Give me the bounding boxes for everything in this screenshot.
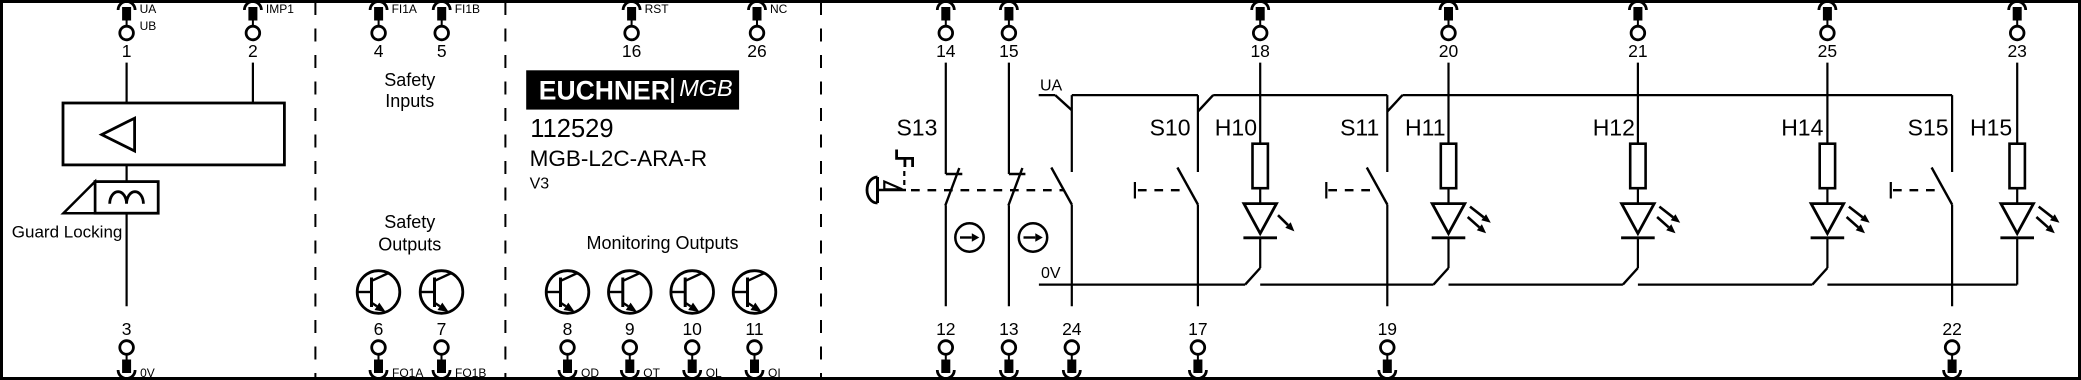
wire resistor to LED H12 xyxy=(1637,188,1639,204)
0V bus segment 2 xyxy=(1260,284,1433,286)
wire H15 to 0V bus end corner xyxy=(2016,238,2018,285)
H12 series resistor xyxy=(1630,144,1645,189)
svg-text:17: 17 xyxy=(1188,319,1207,339)
svg-text:7: 7 xyxy=(437,319,447,339)
svg-text:Outputs: Outputs xyxy=(378,235,441,255)
wire S15 to terminal 22 xyxy=(1951,205,1953,307)
UA bus branch diagonal S11 xyxy=(1387,95,1402,111)
svg-text:FI1B: FI1B xyxy=(455,2,480,16)
transistor output 9 xyxy=(609,271,652,314)
svg-text:IMP1: IMP1 xyxy=(266,2,294,16)
UA bus segment 3 xyxy=(1403,94,1953,96)
wire H10 to 0V bus with diagonal xyxy=(1259,238,1261,268)
LED H11 xyxy=(1432,204,1465,234)
svg-text:UA: UA xyxy=(140,2,157,16)
LED H14 xyxy=(1811,204,1844,234)
svg-text:S15: S15 xyxy=(1908,115,1949,141)
svg-text:23: 23 xyxy=(2007,41,2026,61)
wire guard lock to terminal 3 xyxy=(125,213,127,306)
terminal 16 (RST) xyxy=(623,2,640,11)
actuation direction symbol a xyxy=(955,223,983,251)
wire terminal 23 to H15 resistor xyxy=(2016,63,2018,144)
section divider 2 xyxy=(504,2,506,378)
S11 actuator dashed link xyxy=(1328,189,1375,191)
wire resistor to LED H10 xyxy=(1259,188,1261,204)
S11 actuator T-bar xyxy=(1325,182,1327,199)
svg-text:OL: OL xyxy=(706,366,722,380)
svg-text:0V: 0V xyxy=(1041,265,1061,282)
wire terminal 20 to H11 resistor xyxy=(1447,63,1449,144)
terminal 5 (FI1B) xyxy=(433,2,450,11)
svg-text:Safety: Safety xyxy=(384,70,435,90)
terminal 20 xyxy=(1440,2,1457,11)
terminal 18 xyxy=(1252,2,1269,11)
wire S10 to terminal 17 xyxy=(1197,205,1199,307)
svg-text:18: 18 xyxy=(1250,41,1269,61)
S13 actuator wedge xyxy=(884,182,902,190)
wire H12 to 0V bus with diagonal xyxy=(1637,238,1639,268)
0V bus segment 5 xyxy=(1827,284,2016,286)
section divider 3 xyxy=(820,2,822,378)
svg-text:UA: UA xyxy=(1040,78,1063,95)
transistor output 11 xyxy=(733,271,776,314)
wire terminal 21 to H12 resistor xyxy=(1637,63,1639,144)
wire terminal 25 to H14 resistor xyxy=(1826,63,1828,144)
svg-text:13: 13 xyxy=(999,319,1018,339)
LED H12 xyxy=(1622,204,1655,234)
wire H11 to 0V bus with diagonal xyxy=(1447,238,1449,268)
S10 actuator T-bar xyxy=(1134,182,1136,199)
svg-text:16: 16 xyxy=(622,41,641,61)
svg-text:Guard Locking: Guard Locking xyxy=(12,223,123,242)
svg-text:FO1B: FO1B xyxy=(455,366,486,380)
transistor output 6 xyxy=(357,271,400,314)
svg-text:3: 3 xyxy=(122,319,132,339)
wire terminal 2 to control box xyxy=(252,63,254,103)
terminal 23 xyxy=(2009,2,2026,11)
transistor output 7 xyxy=(420,271,463,314)
S15 actuator T-bar xyxy=(1890,182,1892,199)
actuation direction symbol b xyxy=(1019,223,1047,251)
svg-text:0V: 0V xyxy=(140,366,155,380)
svg-text:Monitoring Outputs: Monitoring Outputs xyxy=(586,233,738,253)
svg-text:H15: H15 xyxy=(1970,115,2012,141)
transistor output 8 xyxy=(546,271,589,314)
0V bus segment 3 xyxy=(1449,284,1623,286)
svg-text:25: 25 xyxy=(1818,41,1837,61)
wire terminal 1 to control box xyxy=(125,63,127,103)
0V bus segment 4 xyxy=(1638,284,1813,286)
terminal 2 (IMP1) xyxy=(244,2,261,11)
H14 series resistor xyxy=(1820,144,1835,189)
svg-text:15: 15 xyxy=(999,41,1018,61)
S13 actuator lead xyxy=(878,189,907,191)
svg-text:2: 2 xyxy=(248,41,258,61)
svg-text:MGB: MGB xyxy=(679,75,733,101)
0V bus segment 1 xyxy=(1039,284,1245,286)
svg-text:20: 20 xyxy=(1439,41,1459,61)
wire contact a to terminal 12 xyxy=(945,206,947,307)
wire resistor to LED H11 xyxy=(1447,188,1449,204)
section divider 1 xyxy=(314,2,316,378)
svg-text:Safety: Safety xyxy=(384,212,435,232)
wire resistor to LED H14 xyxy=(1826,188,1828,204)
svg-text:FO1A: FO1A xyxy=(392,366,423,380)
svg-text:8: 8 xyxy=(563,319,573,339)
S13 NO contact (UA to terminal 24) xyxy=(1071,95,1073,172)
svg-text:22: 22 xyxy=(1942,319,1961,339)
H11 series resistor xyxy=(1441,144,1456,189)
guard lock wedge xyxy=(63,182,95,214)
svg-text:19: 19 xyxy=(1378,319,1397,339)
UA bus segment 2 xyxy=(1213,94,1387,96)
svg-text:5: 5 xyxy=(437,41,447,61)
svg-text:24: 24 xyxy=(1062,319,1082,339)
S11 NO contact xyxy=(1386,95,1388,172)
S13 key actuator button xyxy=(867,177,878,203)
svg-text:RST: RST xyxy=(645,2,670,16)
S13 NC contact a (wire 14-12) xyxy=(945,63,947,174)
svg-text:11: 11 xyxy=(745,319,763,339)
terminal 25 xyxy=(1819,2,1836,11)
svg-text:H11: H11 xyxy=(1405,115,1446,141)
svg-text:12: 12 xyxy=(936,319,955,339)
svg-text:S13: S13 xyxy=(896,115,937,141)
LED H15 xyxy=(2001,204,2034,234)
S10 actuator dashed link xyxy=(1138,189,1186,191)
svg-text:14: 14 xyxy=(936,41,956,61)
terminal 4 (FI1A) xyxy=(370,2,387,11)
S15 NO contact xyxy=(1951,95,1953,172)
svg-text:Inputs: Inputs xyxy=(385,91,434,111)
wire contact to terminal 24 xyxy=(1071,205,1073,307)
LED H10 xyxy=(1244,204,1277,234)
terminal 1 (UA/UB) xyxy=(118,1,135,10)
svg-text:MGB-L2C-ARA-R: MGB-L2C-ARA-R xyxy=(530,146,708,171)
terminal 21 xyxy=(1629,2,1646,11)
UA bus segment 1 xyxy=(1072,94,1198,96)
svg-text:1: 1 xyxy=(122,41,132,61)
svg-text:V3: V3 xyxy=(530,175,550,192)
svg-text:21: 21 xyxy=(1628,41,1647,61)
wire resistor to LED H15 xyxy=(2016,188,2018,204)
solenoid coil symbol xyxy=(110,192,144,204)
svg-text:6: 6 xyxy=(374,319,384,339)
wire control box to guard lock solenoid xyxy=(125,165,127,182)
svg-text:FI1A: FI1A xyxy=(392,2,417,16)
transistor output 10 xyxy=(671,271,714,314)
svg-text:S10: S10 xyxy=(1150,115,1191,141)
svg-text:H10: H10 xyxy=(1215,115,1257,141)
svg-text:UB: UB xyxy=(140,19,157,33)
terminal 14 xyxy=(937,2,954,11)
amplifier triangle inside control box xyxy=(102,118,135,151)
svg-text:H12: H12 xyxy=(1593,115,1635,141)
H10 series resistor xyxy=(1253,144,1268,189)
terminal 26 (NC) xyxy=(749,2,766,11)
H15 series resistor xyxy=(2010,144,2025,189)
wire H14 to 0V bus with diagonal xyxy=(1826,238,1828,268)
wire terminal 18 to H10 resistor xyxy=(1259,63,1261,144)
S13 key symbol xyxy=(897,150,913,168)
guard lock solenoid box xyxy=(95,182,158,214)
UA bus branch diagonal S10 xyxy=(1198,95,1213,111)
S13 NC contact b (wire 15-13) xyxy=(1008,63,1010,174)
wire S11 to terminal 19 xyxy=(1386,205,1388,307)
control unit box xyxy=(63,103,284,165)
svg-text:9: 9 xyxy=(625,319,635,339)
terminal 15 xyxy=(1000,2,1017,11)
S10 NO contact xyxy=(1197,95,1199,172)
svg-text:NC: NC xyxy=(770,2,788,16)
wire contact b to terminal 13 xyxy=(1008,206,1010,307)
S13 key link dashed xyxy=(903,171,905,187)
svg-text:EUCHNER: EUCHNER xyxy=(539,75,670,105)
S15 actuator dashed link xyxy=(1893,189,1940,191)
svg-text:4: 4 xyxy=(374,41,384,61)
svg-text:OD: OD xyxy=(581,366,599,380)
EUCHNER MGB logo xyxy=(526,70,739,109)
svg-text:S11: S11 xyxy=(1340,115,1379,141)
svg-text:112529: 112529 xyxy=(530,115,613,143)
UA label underline and diagonal xyxy=(1039,94,1056,96)
S13 mechanical link dashed line xyxy=(911,189,1064,191)
svg-text:OI: OI xyxy=(768,366,781,380)
svg-text:26: 26 xyxy=(747,41,766,61)
svg-text:10: 10 xyxy=(682,319,702,339)
svg-text:H14: H14 xyxy=(1781,115,1823,141)
svg-text:OT: OT xyxy=(643,366,660,380)
